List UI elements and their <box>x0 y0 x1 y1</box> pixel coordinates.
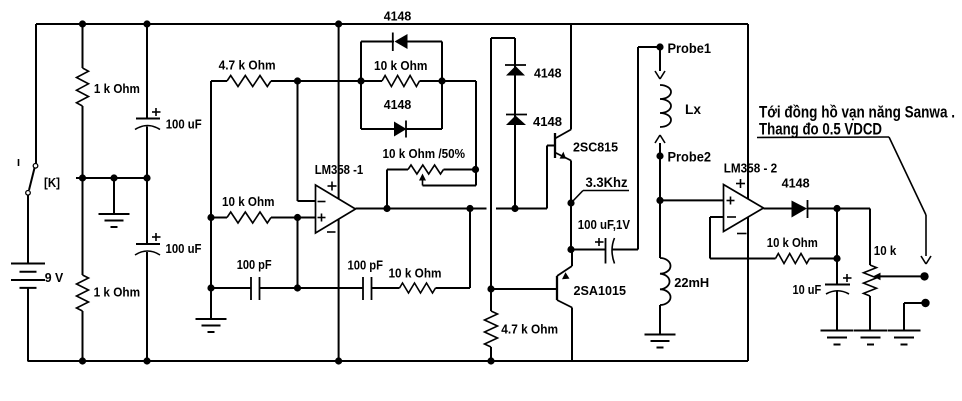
svg-text:100 uF: 100 uF <box>166 118 202 132</box>
svg-text:10 k Ohm: 10 k Ohm <box>389 266 442 280</box>
svg-text:[K]: [K] <box>44 176 60 190</box>
svg-text:10 k: 10 k <box>874 243 897 258</box>
svg-text:3.3Khz: 3.3Khz <box>586 175 628 190</box>
svg-text:4148: 4148 <box>384 98 412 112</box>
svg-text:1 k Ohm: 1 k Ohm <box>94 286 141 300</box>
svg-text:100 uF,1V: 100 uF,1V <box>578 218 631 232</box>
svg-text:100 uF: 100 uF <box>166 242 202 256</box>
svg-text:10 k Ohm /50%: 10 k Ohm /50% <box>383 147 466 161</box>
svg-text:4148: 4148 <box>533 115 562 129</box>
svg-text:4.7 k Ohm: 4.7 k Ohm <box>501 322 558 337</box>
svg-text:4148: 4148 <box>384 10 412 24</box>
svg-text:10 k Ohm: 10 k Ohm <box>222 195 275 209</box>
svg-text:LM358 -1: LM358 -1 <box>315 162 364 177</box>
svg-text:4148: 4148 <box>782 177 810 191</box>
svg-text:Probe2: Probe2 <box>668 150 712 165</box>
svg-text:2SC815: 2SC815 <box>573 140 618 155</box>
svg-text:2SA1015: 2SA1015 <box>574 283 627 298</box>
svg-text:100 pF: 100 pF <box>348 258 384 272</box>
svg-text:Probe1: Probe1 <box>668 41 712 56</box>
svg-text:100 pF: 100 pF <box>237 258 272 272</box>
svg-text:4148: 4148 <box>534 67 562 81</box>
svg-text:Lx: Lx <box>685 102 701 117</box>
svg-text:10 k Ohm: 10 k Ohm <box>374 59 428 73</box>
svg-text:LM358 - 2: LM358 - 2 <box>724 161 778 176</box>
svg-text:Thang đo 0.5 VDCD: Thang đo 0.5 VDCD <box>759 121 882 139</box>
svg-text:1 k Ohm: 1 k Ohm <box>94 82 140 96</box>
svg-text:9 V: 9 V <box>45 271 64 285</box>
svg-text:10 k Ohm: 10 k Ohm <box>767 236 818 250</box>
svg-text:Tới đồng hồ vạn năng Sanwa .: Tới đồng hồ vạn năng Sanwa . <box>759 104 955 122</box>
svg-text:10 uF: 10 uF <box>793 283 822 297</box>
svg-text:4.7 k Ohm: 4.7 k Ohm <box>219 59 276 73</box>
svg-text:22mH: 22mH <box>674 275 709 290</box>
